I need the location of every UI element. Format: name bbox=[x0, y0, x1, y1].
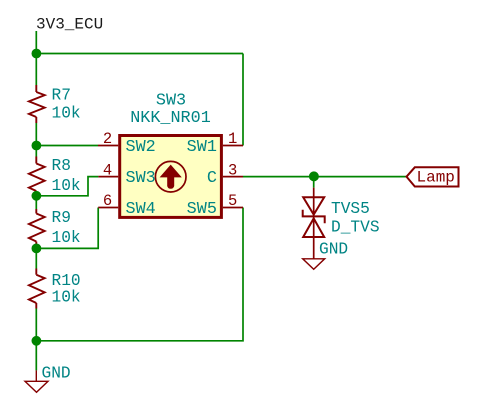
svg-text:D_TVS: D_TVS bbox=[331, 218, 380, 236]
svg-text:R8: R8 bbox=[52, 157, 71, 175]
global label Lamp bbox=[407, 167, 459, 186]
wire to pin 6 (jog) bbox=[36, 208, 98, 249]
svg-text:SW4: SW4 bbox=[126, 200, 156, 219]
wire R10 to junction bbox=[35, 309, 37, 341]
pin 3 (C) bbox=[207, 161, 243, 188]
SW3 value label NKK_NR01 bbox=[130, 109, 211, 128]
svg-text:Lamp: Lamp bbox=[417, 169, 455, 187]
R8 reference label bbox=[52, 157, 71, 175]
svg-text:R10: R10 bbox=[52, 272, 81, 290]
R9 reference label bbox=[52, 209, 71, 227]
power symbol GND (under TVS) bbox=[303, 259, 325, 270]
wire rail to R10 bbox=[35, 248, 37, 268]
svg-text:10k: 10k bbox=[52, 229, 81, 247]
svg-text:6: 6 bbox=[103, 192, 112, 210]
wire rail to R9 bbox=[35, 196, 37, 209]
junction at pin 2 row bbox=[32, 141, 42, 151]
R7 value label bbox=[52, 105, 81, 123]
label 3V3_ECU bbox=[36, 16, 103, 34]
switch SW3 body bbox=[120, 136, 222, 218]
junction at bottom rail bbox=[32, 336, 42, 346]
wire rail to R7 bbox=[35, 54, 37, 86]
pin 6 (SW4) bbox=[98, 192, 156, 219]
resistor R9 bbox=[29, 209, 45, 247]
svg-text:10k: 10k bbox=[52, 177, 81, 195]
GND label text (bottom left) bbox=[42, 365, 71, 383]
resistor R10 bbox=[29, 269, 45, 309]
wire bottom horizontal to SW5 bbox=[36, 208, 243, 341]
svg-text:NKK_NR01: NKK_NR01 bbox=[130, 109, 211, 128]
pin 2 (SW2) bbox=[98, 130, 156, 157]
svg-text:4: 4 bbox=[103, 161, 112, 179]
SW3 rotary arrow circle bbox=[155, 161, 186, 192]
wire rail to R8 bbox=[35, 146, 37, 157]
junction at 3V3 rail bbox=[32, 49, 42, 59]
junction at TVS tap bbox=[309, 171, 319, 181]
pin 1 (SW1) bbox=[187, 130, 243, 157]
resistor R8 bbox=[29, 157, 45, 196]
svg-text:10k: 10k bbox=[52, 289, 81, 307]
svg-text:10k: 10k bbox=[52, 105, 81, 123]
R10 value label bbox=[52, 289, 81, 307]
svg-text:R9: R9 bbox=[52, 209, 71, 227]
svg-text:5: 5 bbox=[228, 192, 237, 210]
power symbol GND (bottom left) bbox=[25, 370, 48, 392]
svg-text:R7: R7 bbox=[52, 87, 71, 105]
R10 reference label bbox=[52, 272, 81, 290]
svg-text:C: C bbox=[207, 169, 217, 188]
svg-text:SW3: SW3 bbox=[156, 91, 186, 110]
svg-text:1: 1 bbox=[228, 130, 237, 148]
TVS5 reference label bbox=[331, 200, 370, 218]
SW3 reference label bbox=[156, 91, 186, 110]
resistor R7 bbox=[29, 85, 45, 123]
R7 reference label bbox=[52, 87, 71, 105]
wire junction to TVS pin bbox=[313, 177, 315, 188]
TVS5 value label D_TVS bbox=[331, 218, 380, 236]
wire R9 to junction bbox=[35, 247, 37, 249]
GND label text (under TVS) bbox=[319, 240, 348, 258]
wire junction to GND bbox=[35, 341, 37, 371]
pin 5 (SW5) bbox=[187, 192, 243, 219]
wire top horizontal bbox=[36, 53, 243, 55]
svg-text:SW3: SW3 bbox=[126, 169, 156, 188]
junction at R9/R10 bbox=[32, 244, 42, 254]
wire from label to junction bbox=[35, 31, 37, 54]
svg-text:2: 2 bbox=[103, 130, 112, 148]
wire to pin 2 bbox=[36, 145, 98, 147]
pin 4 (SW3) bbox=[98, 161, 155, 188]
svg-text:GND: GND bbox=[42, 365, 71, 383]
svg-text:SW1: SW1 bbox=[187, 138, 217, 157]
wire pin 3 to Lamp bbox=[243, 176, 407, 178]
junction at R8/R9 bbox=[32, 191, 42, 201]
R8 value label bbox=[52, 177, 81, 195]
svg-text:SW5: SW5 bbox=[187, 200, 217, 219]
wire right vertical to pin 1 bbox=[242, 54, 244, 146]
svg-text:GND: GND bbox=[319, 240, 348, 258]
svg-text:3: 3 bbox=[228, 161, 237, 179]
wire R7 to junction bbox=[35, 123, 37, 146]
TVS diode TVS5 bbox=[303, 188, 325, 259]
svg-text:TVS5: TVS5 bbox=[331, 200, 370, 218]
wire to pin 4 (jog) bbox=[36, 177, 98, 196]
svg-text:SW2: SW2 bbox=[126, 138, 156, 157]
R9 value label bbox=[52, 229, 81, 247]
svg-text:3V3_ECU: 3V3_ECU bbox=[36, 16, 103, 34]
